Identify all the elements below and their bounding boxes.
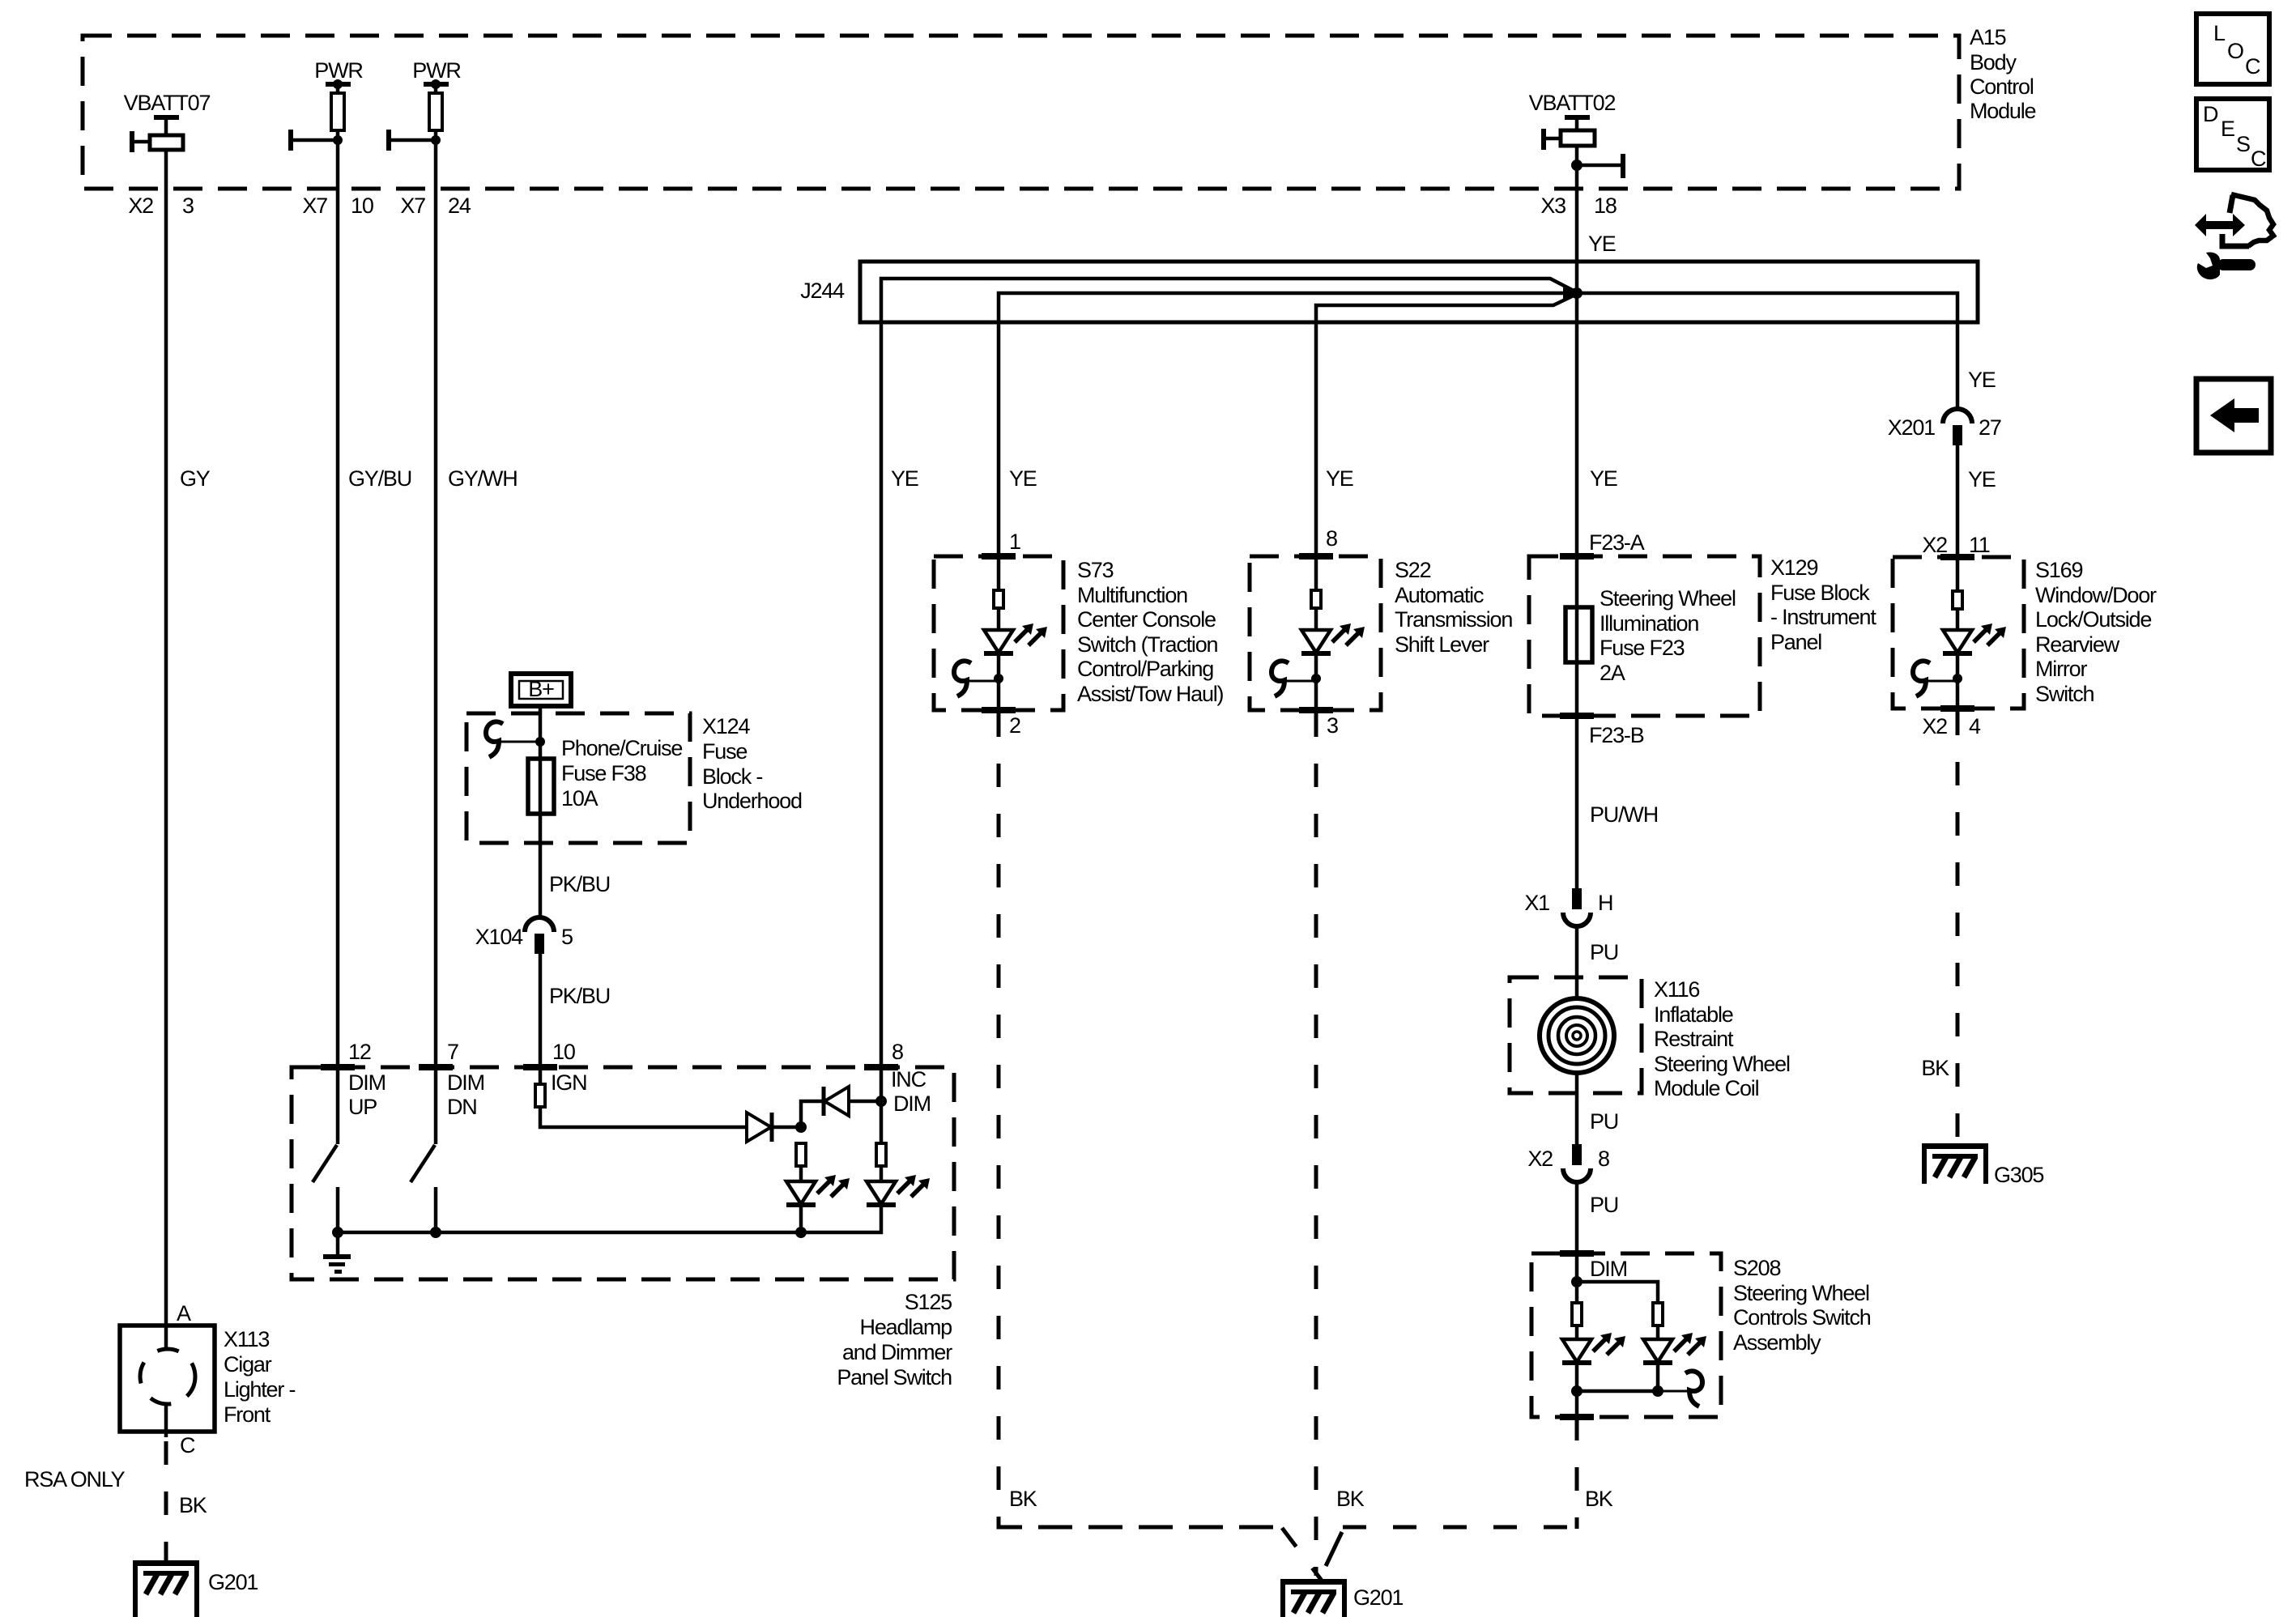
svg-text:5: 5 (561, 925, 573, 949)
svg-text:GY/WH: GY/WH (448, 466, 518, 491)
svg-text:PU: PU (1590, 940, 1618, 964)
wire BK S208 down to ground bus (1575, 1417, 1579, 1529)
label S73 Multifunction Center Console Switch (1077, 558, 1224, 706)
svg-text:8: 8 (1598, 1147, 1609, 1171)
svg-text:3: 3 (182, 194, 194, 218)
wire BK X113 to G201 left (164, 1441, 168, 1560)
svg-text:Steering Wheel: Steering Wheel (1733, 1281, 1869, 1305)
svg-text:Panel Switch: Panel Switch (837, 1365, 952, 1389)
resistor S208 right (1653, 1303, 1663, 1326)
svg-text:Multifunction: Multifunction (1077, 583, 1187, 607)
svg-text:and Dimmer: and Dimmer (842, 1340, 952, 1364)
switch DIM UP blade (313, 1067, 338, 1232)
wire PU X1-H to X116 (1575, 926, 1579, 998)
svg-text:PWR: PWR (412, 58, 461, 83)
label X124 Fuse Block - Underhood (702, 714, 802, 813)
ground G305 (1922, 1143, 1988, 1184)
svg-text:Controls Switch: Controls Switch (1733, 1305, 1871, 1330)
junction J244 on VBATT02 wire (1571, 287, 1582, 299)
label Steering Wheel Illumination Fuse F23 2A (1600, 586, 1736, 685)
svg-text:Automatic: Automatic (1395, 583, 1484, 607)
svg-text:Steering Wheel: Steering Wheel (1654, 1052, 1790, 1076)
svg-text:C: C (2251, 147, 2266, 171)
switch S73 dashed box (934, 556, 1063, 710)
lighter element dashed circle X113 (140, 1349, 195, 1404)
svg-text:UP: UP (348, 1095, 377, 1119)
wire inside S22 top (1314, 556, 1318, 590)
svg-text:Restraint: Restraint (1654, 1027, 1734, 1051)
svg-text:PK/BU: PK/BU (549, 984, 610, 1008)
splice pack J244 outer box (860, 262, 1978, 322)
wire GY VBATT07 down to X113 pin A (164, 150, 168, 1326)
junction S208 top (1571, 1276, 1582, 1287)
wire YE VBATT02 down through J244 to X129 F23-A (1575, 146, 1579, 556)
wire fuse to X104 (539, 819, 543, 918)
switch DIM DN blade (411, 1067, 436, 1232)
wire LED to junction S169 (1956, 653, 1960, 709)
svg-text:18: 18 (1594, 194, 1617, 218)
svg-text:E: E (2221, 117, 2234, 141)
pin label X2 3 (128, 194, 194, 218)
switch contact hook S208 (1658, 1371, 1702, 1406)
svg-text:S169: S169 (2035, 558, 2082, 582)
wire into X113 (164, 1326, 168, 1351)
wire branch to right tick inside A15 (1577, 154, 1625, 178)
earth ground inside S125 (323, 1232, 351, 1274)
svg-text:D: D (2203, 102, 2218, 126)
label S22 Automatic Transmission Shift Lever (1395, 558, 1512, 657)
svg-text:4: 4 (1969, 714, 1981, 738)
junction S125 INC DIM (875, 1096, 887, 1107)
power symbol PWR with resistor (X7-10) (288, 79, 351, 151)
svg-text:YE: YE (1968, 467, 1996, 491)
label X1 H (1524, 891, 1612, 915)
svg-text:Assembly: Assembly (1733, 1330, 1821, 1355)
wire diode D1 to junction (772, 1126, 801, 1130)
svg-text:Shift Lever: Shift Lever (1395, 632, 1489, 657)
junction X124 (535, 737, 545, 747)
svg-text:Switch (Traction: Switch (Traction (1077, 632, 1218, 657)
svg-text:X2: X2 (1527, 1147, 1553, 1171)
wire S208 top branch to right LED (1577, 1282, 1658, 1303)
pin tick S208 DIM (1560, 1250, 1594, 1257)
svg-text:A: A (177, 1301, 191, 1326)
wire YE J244 branch 2 to S73 pin 1 (999, 293, 1571, 556)
junction bus at LED left (795, 1227, 807, 1238)
svg-text:S73: S73 (1077, 558, 1114, 582)
svg-text:PU/WH: PU/WH (1590, 802, 1658, 827)
fuse F38 symbol (528, 759, 554, 814)
wire LED left to bottom junction (1575, 1362, 1579, 1417)
wire to LED S125 right (880, 1166, 884, 1181)
svg-text:G201: G201 (208, 1570, 258, 1594)
label INC DIM (891, 1067, 931, 1116)
pin label X7 10 (302, 194, 373, 218)
svg-text:X116: X116 (1654, 977, 1699, 1002)
wire B+ into X124 (539, 706, 543, 819)
LED indicator S73 (984, 623, 1047, 653)
pin tick S73 pin 1 (982, 553, 1016, 560)
svg-text:C: C (180, 1433, 195, 1457)
power symbol VBATT07 (130, 115, 183, 152)
resistor in S73 (994, 590, 1003, 608)
svg-text:Phone/Cruise: Phone/Cruise (561, 736, 682, 760)
svg-text:X2: X2 (1922, 714, 1947, 738)
svg-text:BK: BK (1009, 1487, 1037, 1511)
svg-text:X1: X1 (1524, 891, 1549, 915)
svg-text:Illumination: Illumination (1600, 611, 1698, 636)
label X201 27 (1888, 415, 2001, 440)
wire to LED S208 left (1575, 1326, 1579, 1338)
svg-text:Fuse Block: Fuse Block (1770, 581, 1870, 605)
diode D2 (DIM to junction, pointing left) (824, 1087, 849, 1116)
inline connector X1 pin H (1563, 888, 1591, 926)
wire LED left to bus (799, 1204, 803, 1232)
wire INC DIM down (880, 1067, 884, 1143)
svg-text:X3: X3 (1540, 194, 1565, 218)
pin tick F23-B (1560, 713, 1594, 719)
module A15 Body Control Module dashed box (83, 36, 1959, 189)
wire BK diagonal left into G201 (1282, 1528, 1322, 1581)
svg-text:12: 12 (348, 1040, 371, 1064)
svg-text:GY: GY (180, 466, 211, 491)
switch contact hook S169 (1913, 661, 1957, 696)
wire YE J244 to X201 and S169 (1577, 293, 1957, 411)
label X116 Inflatable Restraint Steering Wheel Module Coil (1654, 977, 1790, 1100)
label X2 8 (1527, 1147, 1609, 1171)
label Phone/Cruise Fuse F38 10A (561, 736, 682, 811)
wire to LED S125 left (799, 1166, 803, 1181)
LED indicator S208 right (1643, 1333, 1706, 1363)
LED indicator S208 left (1562, 1333, 1625, 1363)
svg-text:S22: S22 (1395, 558, 1431, 582)
junction S125 LED left (795, 1121, 807, 1133)
svg-text:Control: Control (1970, 74, 2034, 99)
svg-text:YE: YE (1968, 368, 1996, 392)
svg-text:Body: Body (1970, 50, 2017, 74)
wire YE X201 to S169 pin X2-11 (1956, 445, 1960, 557)
svg-text:7: 7 (447, 1040, 458, 1064)
coil X116 dashed box (1510, 977, 1642, 1093)
wire PU X116 to X2-8 (1575, 1093, 1579, 1145)
wire diode D2 to INC DIM wire (849, 1100, 881, 1104)
wire IGN branch with resistor (535, 1067, 747, 1127)
pin tick S125 pin 12 (321, 1064, 355, 1070)
label A15 Body Control Module (1970, 25, 2036, 123)
svg-text:Fuse: Fuse (702, 739, 747, 764)
label S125 Headlamp and Dimmer Panel Switch (837, 1290, 952, 1389)
resistor in S22 (1311, 590, 1321, 608)
icon back arrow box (2196, 379, 2271, 453)
icon LOC box (2196, 14, 2269, 84)
svg-text:Module Coil: Module Coil (1654, 1076, 1759, 1100)
pin label X3 18 (1540, 194, 1616, 218)
svg-text:PWR: PWR (314, 58, 363, 83)
svg-text:VBATT02: VBATT02 (1529, 91, 1616, 115)
svg-text:10A: 10A (561, 786, 598, 811)
svg-text:PK/BU: PK/BU (549, 872, 610, 896)
svg-text:8: 8 (892, 1040, 903, 1064)
svg-text:10: 10 (552, 1040, 575, 1064)
icon DESC box (2196, 99, 2269, 171)
junction S208 bottom right (1652, 1385, 1663, 1397)
junction VBATT02 branch (1571, 160, 1582, 171)
svg-text:DIM: DIM (348, 1070, 386, 1095)
diode D1 (IGN to junction) (747, 1113, 772, 1142)
svg-text:X201: X201 (1888, 415, 1935, 440)
svg-text:Module: Module (1970, 99, 2036, 123)
pin label X7 24 (400, 194, 471, 218)
svg-text:X7: X7 (302, 194, 327, 218)
svg-text:Fuse F23: Fuse F23 (1600, 636, 1685, 660)
svg-text:8: 8 (1326, 526, 1337, 551)
svg-text:RSA ONLY: RSA ONLY (24, 1467, 126, 1491)
switch S169 dashed box (1893, 557, 2024, 709)
wire BK ground bus right segment (1343, 1526, 1577, 1530)
pin tick S22 pin 3 (1299, 707, 1333, 713)
svg-text:DN: DN (447, 1095, 477, 1119)
svg-text:BK: BK (1921, 1056, 1949, 1080)
switch assembly S208 dashed box (1531, 1253, 1721, 1417)
svg-text:X7: X7 (400, 194, 425, 218)
svg-text:S125: S125 (905, 1290, 952, 1314)
label X104 5 (475, 925, 573, 949)
svg-text:G201: G201 (1353, 1585, 1403, 1610)
wire through X129 (1575, 556, 1579, 716)
wire PK/BU X104 to S125 pin 10 (539, 954, 543, 1067)
node B+ box (511, 674, 571, 706)
LED indicator S169 (1943, 623, 2006, 653)
svg-text:YE: YE (891, 466, 918, 491)
svg-text:10: 10 (351, 194, 373, 218)
svg-text:GY/BU: GY/BU (348, 466, 411, 491)
wire resistor to LED S169 (1956, 609, 1960, 630)
svg-text:Switch: Switch (2035, 682, 2094, 706)
pin tick S125 pin 7 (419, 1064, 453, 1070)
LED indicator S125 left (786, 1175, 850, 1205)
svg-text:Block -: Block - (702, 764, 762, 789)
svg-text:YE: YE (1588, 232, 1616, 256)
wire X113 element to pin C (164, 1406, 168, 1437)
wire GY/WH PWR down to S125 pin 7 (434, 130, 438, 1067)
svg-text:X2: X2 (1922, 533, 1947, 557)
pin tick S208 bottom (1560, 1414, 1594, 1420)
svg-text:YE: YE (1326, 466, 1353, 491)
label DIM DN (447, 1070, 484, 1119)
svg-text:3: 3 (1327, 713, 1338, 738)
switch contact hook S22 (1272, 661, 1316, 696)
ground G201 (center) (1280, 1579, 1347, 1617)
svg-text:F23-A: F23-A (1589, 530, 1645, 555)
wire GY/BU PWR down to S125 pin 12 (336, 130, 340, 1067)
svg-text:YE: YE (1590, 466, 1617, 491)
fuse F23 symbol (1565, 607, 1592, 662)
switch S125 dashed box (292, 1067, 954, 1279)
label X113 Cigar Lighter - Front (224, 1327, 295, 1427)
wire X116 coil to box bottom (1575, 1073, 1579, 1093)
wire PU X2-8 to S208 (1575, 1182, 1579, 1282)
pin tick S169 X2-11 (1940, 554, 1974, 560)
svg-text:X2: X2 (128, 194, 153, 218)
svg-text:J244: J244 (800, 279, 845, 303)
svg-text:Underhood: Underhood (702, 789, 802, 813)
svg-text:11: 11 (1969, 533, 1990, 557)
label S169 Window/Door Lock/Outside Rearview Mirror Switch (2035, 558, 2157, 706)
junction S73 (994, 674, 1003, 683)
svg-text:Lighter -: Lighter - (224, 1377, 295, 1402)
svg-text:INC: INC (891, 1067, 926, 1091)
svg-text:X124: X124 (702, 714, 750, 738)
power symbol PWR with resistor (X7-24) (386, 79, 449, 151)
pin tick S22 pin 8 (1299, 553, 1333, 560)
svg-text:PU: PU (1590, 1193, 1618, 1217)
svg-text:Assist/Tow Haul): Assist/Tow Haul) (1077, 682, 1224, 706)
switch S22 dashed box (1250, 556, 1381, 710)
svg-text:Headlamp: Headlamp (860, 1315, 952, 1339)
svg-text:DIM: DIM (447, 1070, 484, 1095)
svg-text:A15: A15 (1970, 25, 2006, 49)
svg-text:O: O (2227, 39, 2243, 63)
svg-text:C: C (2245, 54, 2260, 79)
svg-text:BK: BK (179, 1493, 207, 1517)
svg-text:1: 1 (1009, 530, 1020, 554)
svg-text:L: L (2213, 21, 2226, 45)
wire S125 internal ground bus (338, 1204, 881, 1232)
svg-text:27: 27 (1979, 415, 2001, 440)
svg-text:DIM: DIM (1590, 1257, 1627, 1281)
splice arrowhead at J244 junction (1563, 287, 1579, 299)
junction S169 (1953, 674, 1962, 683)
LED indicator S22 (1301, 623, 1365, 653)
junction bus at pin 7 (430, 1227, 441, 1238)
pin tick S169 X2-4 (1940, 705, 1974, 712)
pin label X2 11 (1922, 533, 1989, 557)
svg-text:X104: X104 (475, 925, 523, 949)
svg-text:Center Console: Center Console (1077, 607, 1216, 632)
wire S208 bottom bus (1577, 1389, 1658, 1394)
wire PU/WH X129 to X1-H (1575, 716, 1579, 889)
wire BK S73 pin 2 down to ground bus (999, 713, 1280, 1527)
LED indicator S125 right (867, 1175, 930, 1205)
resistor S125 right branch (876, 1143, 886, 1166)
svg-text:BK: BK (1585, 1487, 1613, 1511)
switch contact hook X124 (486, 721, 540, 757)
wire LED to junction S22 (1314, 653, 1318, 710)
wire to LED S208 right (1656, 1326, 1660, 1338)
wire LED to junction S73 (997, 653, 1001, 710)
svg-text:YE: YE (1009, 466, 1037, 491)
wire resistor to LED S73 (997, 608, 1001, 630)
power symbol VBATT02 (1541, 115, 1595, 150)
svg-text:BK: BK (1336, 1487, 1365, 1511)
svg-text:B+: B+ (528, 677, 554, 701)
svg-text:Inflatable: Inflatable (1654, 1002, 1733, 1027)
svg-text:Steering Wheel: Steering Wheel (1600, 586, 1736, 611)
inline connector X104 pin 5 (525, 917, 554, 954)
svg-text:F23-B: F23-B (1589, 723, 1644, 747)
svg-text:VBATT07: VBATT07 (124, 91, 211, 115)
wire inside S73 top (997, 556, 1001, 590)
inline connector X201 pin 27 (1943, 409, 1972, 445)
switch contact hook S73 (954, 661, 999, 696)
svg-text:G305: G305 (1994, 1163, 2043, 1187)
svg-text:X113: X113 (224, 1327, 269, 1351)
wire BK ground bus left segment (999, 1526, 1284, 1530)
wire YE J244 branch 1 to S125 pin 8 (881, 279, 1575, 1067)
wire YE J244 branch 3 to S22 pin 8 (1316, 295, 1575, 556)
junction S208 bottom left (1571, 1385, 1582, 1397)
cigar lighter X113 box (120, 1326, 215, 1432)
svg-text:S: S (2236, 132, 2250, 156)
pin tick S125 pin 8 (864, 1064, 898, 1070)
svg-text:Lock/Outside: Lock/Outside (2035, 607, 2151, 632)
resistor S208 left (1572, 1303, 1582, 1326)
wire BK S169 down to G305 (1956, 712, 1960, 1145)
svg-text:Cigar: Cigar (224, 1352, 272, 1377)
inline connector X2 pin 8 (1563, 1144, 1591, 1182)
label DIM UP (348, 1070, 386, 1119)
fuse block X124 dashed box (466, 713, 690, 843)
svg-text:Front: Front (224, 1402, 271, 1427)
svg-text:24: 24 (448, 194, 471, 218)
wire S208 left branch (1575, 1282, 1579, 1303)
junction bus at pin 12 (332, 1227, 343, 1238)
wire inside S169 top (1956, 557, 1960, 591)
svg-text:H: H (1598, 891, 1612, 915)
junction S22 (1311, 674, 1321, 683)
svg-text:2: 2 (1009, 713, 1020, 738)
fuse block X129 dashed box (1529, 556, 1760, 716)
resistor in S169 (1953, 591, 1962, 609)
coil X116 Inflatable Restraint Steering Wheel Module Coil (1540, 998, 1614, 1073)
svg-text:S208: S208 (1733, 1256, 1780, 1280)
svg-text:2A: 2A (1600, 661, 1625, 685)
svg-text:DIM: DIM (893, 1091, 931, 1116)
pin tick S73 pin 2 (982, 707, 1016, 713)
svg-text:Window/Door: Window/Door (2035, 583, 2157, 607)
svg-text:Transmission: Transmission (1395, 607, 1512, 632)
svg-text:Control/Parking: Control/Parking (1077, 657, 1213, 681)
svg-text:Fuse F38: Fuse F38 (561, 761, 646, 785)
ground G201 (left) (133, 1560, 199, 1601)
svg-text:- Instrument: - Instrument (1770, 605, 1876, 629)
svg-text:Rearview: Rearview (2035, 632, 2120, 657)
label X129 Fuse Block - Instrument Panel (1770, 555, 1876, 654)
svg-text:Panel: Panel (1770, 630, 1821, 654)
svg-text:Mirror: Mirror (2035, 657, 2087, 681)
wire BK diagonal right into G201 (1326, 1532, 1342, 1566)
svg-text:X129: X129 (1770, 555, 1817, 580)
wire resistor to LED S22 (1314, 608, 1318, 630)
wire BK S22 pin 3 down to G201 (1314, 713, 1318, 1576)
svg-text:PU: PU (1590, 1109, 1618, 1134)
label S208 Steering Wheel Controls Switch Assembly (1733, 1256, 1871, 1355)
icon vehicle with arrow and wrench (2195, 194, 2273, 279)
wire LED right to bottom junction (1656, 1362, 1660, 1391)
pin label X2 4 (1922, 714, 1981, 738)
pin tick F23-A (1560, 553, 1594, 560)
pin tick S125 pin 10 (523, 1064, 557, 1070)
wire junction up to diode D2 (801, 1101, 824, 1127)
resistor S125 left branch (796, 1143, 806, 1166)
svg-text:IGN: IGN (551, 1070, 586, 1095)
